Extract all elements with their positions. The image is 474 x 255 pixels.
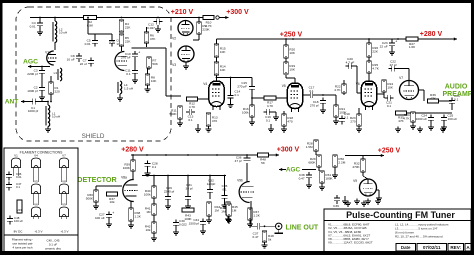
svg-text:4.7K: 4.7K: [372, 67, 379, 71]
svg-text:470K: 470K: [352, 165, 360, 169]
svg-text:V9b: V9b: [237, 179, 243, 183]
svg-text:10K: 10K: [289, 68, 295, 72]
svg-text:V5: V5: [282, 84, 286, 88]
svg-text:1M: 1M: [221, 210, 226, 214]
svg-text:100k: 100k: [144, 192, 151, 196]
svg-text:+280 V: +280 V: [420, 31, 443, 38]
svg-text:V4: V4: [34, 154, 38, 158]
svg-text:270 pf: 270 pf: [310, 103, 319, 107]
svg-text:100K: 100K: [123, 166, 131, 170]
svg-text:100k: 100k: [242, 111, 249, 115]
svg-text:47 pf: 47 pf: [235, 159, 242, 163]
svg-text:Pulse-Counting FM Tuner: Pulse-Counting FM Tuner: [346, 210, 455, 220]
svg-text:V5: V5: [34, 180, 38, 184]
svg-text:270 uF: 270 uF: [121, 55, 131, 59]
svg-text:R2, 10, 27 and 46 ....5% wirew: R2, 10, 27 and 46 ....5% wirewound: [395, 234, 443, 238]
svg-text:22K: 22K: [125, 40, 131, 44]
svg-text:V1a: V1a: [45, 51, 51, 55]
svg-text:0.1: 0.1: [235, 93, 240, 97]
svg-text:10K: 10K: [289, 51, 295, 55]
svg-text:REV:: REV:: [450, 245, 461, 250]
svg-text:1M: 1M: [146, 210, 151, 214]
svg-text:0.47: 0.47: [299, 176, 305, 180]
svg-text:0.1: 0.1: [266, 118, 271, 122]
svg-text:10 uH: 10 uH: [59, 31, 67, 35]
svg-text:ANT: ANT: [5, 98, 19, 105]
svg-text:V8a: V8a: [121, 176, 127, 180]
svg-text:10K: 10K: [151, 79, 157, 83]
svg-text:DETECTOR: DETECTOR: [77, 175, 117, 184]
svg-text:10k: 10k: [146, 228, 151, 232]
svg-text:-6.3 V: -6.3 V: [34, 230, 42, 234]
svg-text:10 uH: 10 uH: [52, 115, 60, 119]
svg-text:0.1: 0.1: [309, 89, 314, 93]
svg-text:22 uf: 22 uf: [80, 62, 87, 66]
svg-text:4.7K: 4.7K: [334, 88, 341, 92]
svg-text:10 uF: 10 uF: [67, 57, 75, 61]
svg-text:4.7K: 4.7K: [267, 104, 274, 108]
svg-text:V6: V6: [356, 82, 360, 86]
svg-text:0.01: 0.01: [85, 42, 91, 46]
svg-text:ceramic disc: ceramic disc: [45, 247, 62, 251]
svg-text:33 pf: 33 pf: [186, 186, 193, 190]
svg-text:+: +: [395, 40, 397, 44]
svg-text:100 uF: 100 uF: [448, 117, 458, 121]
svg-text:V1: V1: [14, 154, 18, 158]
svg-text:0.1: 0.1: [188, 118, 193, 122]
svg-text:50K: 50K: [152, 62, 158, 66]
svg-text:0.022: 0.022: [179, 222, 187, 226]
svg-text:+280 V: +280 V: [121, 146, 144, 153]
svg-text:47K: 47K: [150, 37, 156, 41]
svg-text:22K: 22K: [372, 50, 378, 54]
svg-text:470: 470: [212, 119, 217, 123]
svg-text:4.7K: 4.7K: [189, 105, 196, 109]
svg-text:+300 V: +300 V: [226, 9, 249, 16]
svg-text:V6: V6: [34, 203, 38, 207]
svg-text:V9: V9: [353, 179, 357, 183]
svg-text:V7: V7: [62, 154, 66, 158]
svg-text:V7: V7: [399, 76, 403, 80]
svg-text:L3: L3: [54, 71, 58, 75]
svg-text:680K: 680K: [308, 161, 316, 165]
svg-text:1M: 1M: [232, 208, 237, 212]
svg-text:SHIELD: SHIELD: [82, 133, 105, 140]
svg-text:10K: 10K: [220, 68, 226, 72]
svg-text:4 turns per inch: 4 turns per inch: [13, 246, 33, 250]
svg-text:100 uF: 100 uF: [95, 216, 105, 220]
svg-text:220: 220: [55, 89, 60, 93]
svg-text:AGC: AGC: [23, 59, 38, 66]
svg-text:500K: 500K: [86, 196, 94, 200]
svg-text:V9: V9: [62, 203, 66, 207]
svg-text:+300 V: +300 V: [277, 146, 300, 153]
svg-text:1M: 1M: [215, 208, 220, 212]
svg-text:1000 pf: 1000 pf: [28, 109, 38, 113]
svg-text:47 pf: 47 pf: [390, 63, 397, 67]
svg-text:+210 V: +210 V: [171, 9, 194, 16]
svg-text:0.1: 0.1: [152, 165, 157, 169]
svg-text:8V DC: 8V DC: [14, 230, 24, 234]
svg-text:+250 V: +250 V: [280, 31, 303, 38]
svg-text:4.7K: 4.7K: [403, 117, 410, 121]
svg-text:FILAMENT CONNECTIONS: FILAMENT CONNECTIONS: [20, 151, 63, 155]
svg-text:0.01: 0.01: [30, 24, 36, 28]
svg-text:270: 270: [350, 120, 355, 124]
svg-text:V4: V4: [203, 82, 207, 86]
svg-text:180K: 180K: [325, 177, 333, 181]
svg-text:V8: V8: [62, 180, 66, 184]
svg-text:+250 V: +250 V: [378, 147, 401, 154]
svg-text:VR1: VR1: [17, 209, 22, 212]
svg-text:Date: Date: [401, 245, 411, 250]
svg-text:10k: 10k: [110, 200, 115, 204]
svg-text:V3: V3: [172, 63, 176, 67]
svg-text:100K: 100K: [184, 217, 192, 221]
svg-text:22K: 22K: [125, 26, 131, 30]
svg-text:1.5M: 1.5M: [306, 145, 313, 149]
svg-text:AUDIO: AUDIO: [445, 83, 468, 90]
svg-text:1.2K: 1.2K: [135, 214, 142, 218]
svg-text:47K: 47K: [430, 97, 436, 101]
svg-text:100 uF: 100 uF: [14, 219, 23, 223]
svg-text:1.5 uH: 1.5 uH: [124, 86, 133, 90]
svg-text:+: +: [112, 211, 114, 215]
svg-text:10K: 10K: [220, 50, 226, 54]
svg-text:0.1: 0.1: [16, 185, 20, 189]
svg-text:V9..............12AX7, ECC83,: V9..............12AX7, ECC83, 6H2T: [328, 241, 373, 245]
svg-text:10K: 10K: [387, 86, 393, 90]
svg-text:0.01: 0.01: [16, 175, 22, 179]
svg-text:0.1: 0.1: [454, 97, 459, 101]
svg-text:2200 pf: 2200 pf: [27, 72, 37, 76]
svg-text:2200 pf: 2200 pf: [164, 189, 174, 193]
svg-text:0.1: 0.1: [387, 104, 392, 108]
svg-text:0.1: 0.1: [126, 72, 131, 76]
svg-text:LINE OUT: LINE OUT: [286, 224, 319, 231]
svg-text:1.2K: 1.2K: [253, 214, 260, 218]
svg-text:-6.3 V: -6.3 V: [60, 230, 68, 234]
svg-text:5k: 5k: [268, 237, 272, 241]
svg-text:1000 pf: 1000 pf: [27, 89, 37, 93]
svg-text:270 pF: 270 pF: [237, 84, 247, 88]
svg-text:07/02/11: 07/02/11: [423, 245, 441, 250]
svg-text:4.7 pF: 4.7 pF: [346, 60, 355, 64]
svg-text:0.047: 0.047: [147, 26, 155, 30]
svg-text:1000 uF: 1000 uF: [416, 117, 427, 121]
svg-text:+: +: [138, 51, 140, 55]
svg-text:V2: V2: [172, 37, 176, 41]
svg-text:220K: 220K: [202, 28, 210, 32]
svg-text:470: 470: [287, 120, 292, 124]
svg-text:0.1: 0.1: [344, 115, 349, 119]
svg-text:1.6K: 1.6K: [409, 45, 416, 49]
svg-text:0.47: 0.47: [252, 235, 258, 239]
svg-text:500K: 500K: [169, 112, 177, 116]
svg-text:V1b: V1b: [109, 41, 115, 45]
svg-text:PREAMP: PREAMP: [443, 91, 473, 98]
svg-text:1500 pf: 1500 pf: [189, 221, 199, 225]
svg-text:120pF: 120pF: [207, 182, 216, 186]
svg-text:2.2M: 2.2M: [338, 161, 345, 165]
svg-text:22 uF: 22 uF: [380, 44, 388, 48]
